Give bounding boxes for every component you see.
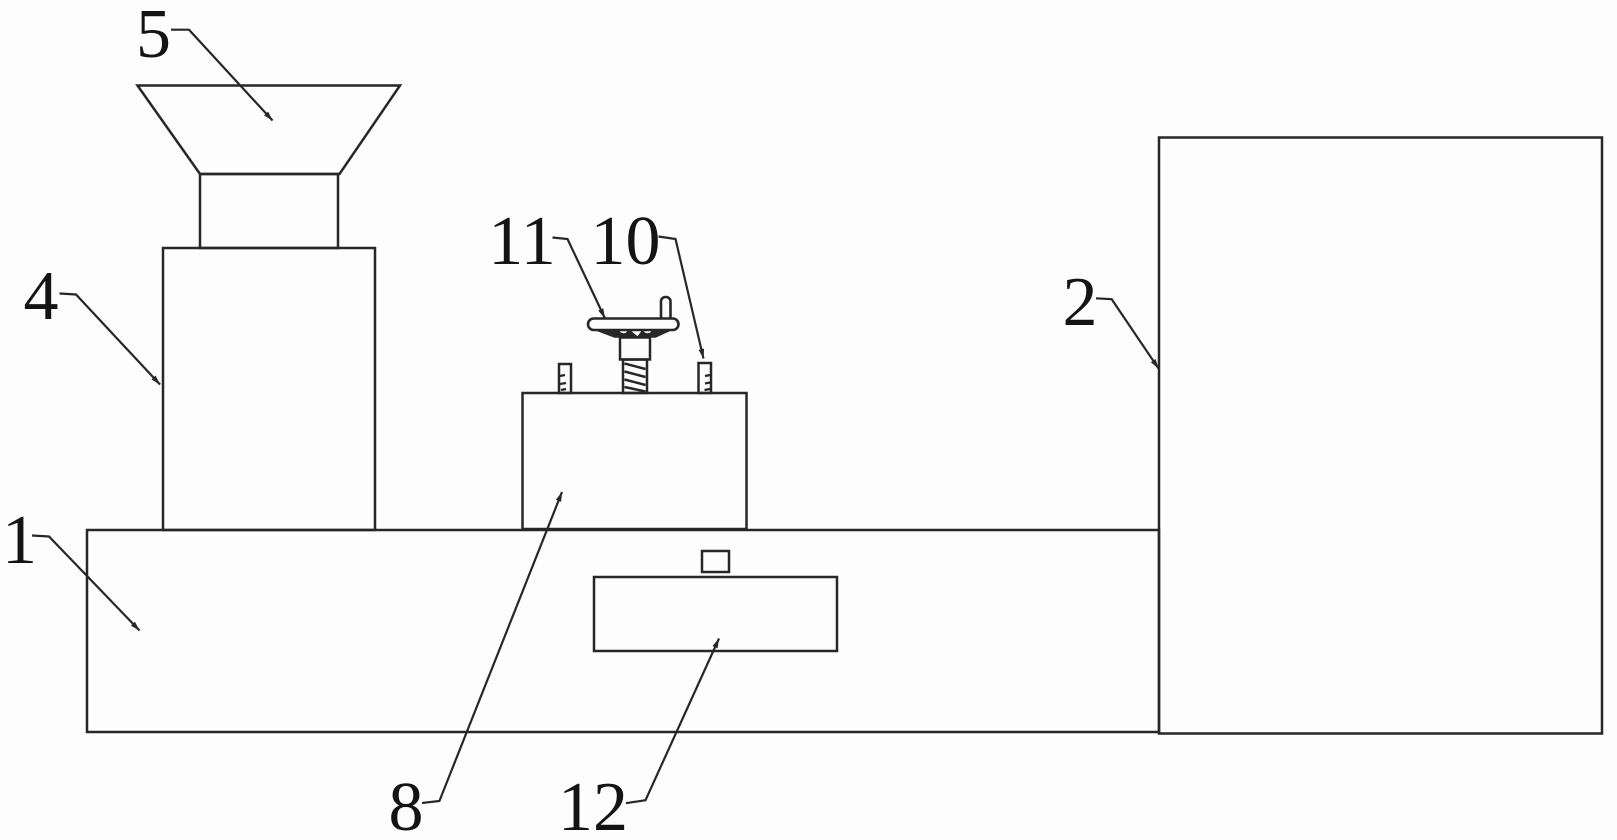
svg-text:1: 1 xyxy=(2,502,37,579)
svg-text:2: 2 xyxy=(1063,264,1098,341)
svg-text:12: 12 xyxy=(558,769,628,840)
svg-text:4: 4 xyxy=(24,258,59,335)
svg-text:5: 5 xyxy=(136,0,171,73)
svg-text:11: 11 xyxy=(488,203,555,280)
svg-text:10: 10 xyxy=(591,203,661,280)
svg-text:8: 8 xyxy=(389,769,424,840)
